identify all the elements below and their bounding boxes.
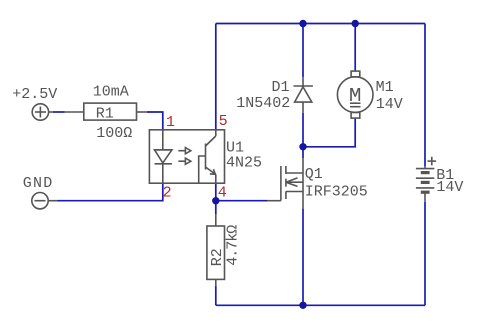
svg-text:+2.5V: +2.5V: [12, 86, 57, 103]
svg-text:M1: M1: [376, 79, 394, 96]
svg-text:IRF3205: IRF3205: [305, 183, 368, 200]
svg-text:10mA: 10mA: [93, 84, 129, 101]
svg-text:D1: D1: [272, 79, 290, 96]
svg-text:R2: R2: [209, 248, 226, 266]
svg-text:100Ω: 100Ω: [96, 125, 132, 142]
svg-text:M: M: [349, 85, 362, 107]
svg-text:4N25: 4N25: [226, 154, 262, 171]
svg-text:1: 1: [166, 114, 175, 131]
svg-text:4.7kΩ: 4.7kΩ: [225, 225, 242, 266]
svg-text:1N5402: 1N5402: [236, 95, 290, 112]
svg-text:14V: 14V: [436, 179, 463, 196]
svg-text:R1: R1: [96, 105, 114, 122]
svg-text:2: 2: [163, 184, 172, 201]
svg-text:14V: 14V: [376, 96, 403, 113]
svg-text:Q1: Q1: [305, 166, 323, 183]
svg-text:4: 4: [218, 184, 227, 201]
svg-text:GND: GND: [23, 175, 54, 192]
svg-text:5: 5: [219, 113, 228, 130]
